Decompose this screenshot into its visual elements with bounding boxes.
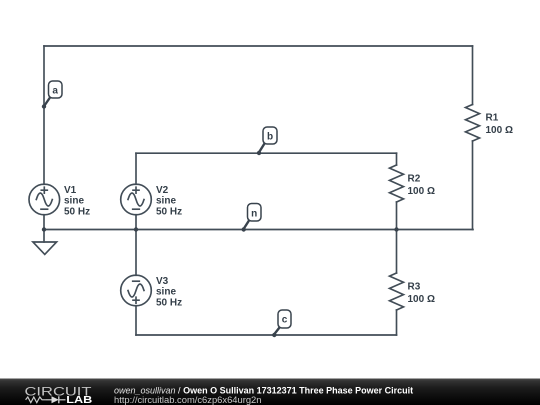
svg-text:V2: V2 [156,185,169,196]
wire node b row [136,152,397,154]
svg-text:a: a [52,86,58,97]
wire R3 bottom stub [396,310,398,335]
resistor R2 [390,165,404,202]
svg-text:V1: V1 [64,185,77,196]
node a [42,81,62,109]
label V1 value [64,185,90,218]
wire left vertical (node a) [43,46,45,184]
footer title text [114,386,413,405]
svg-text:100 Ω: 100 Ω [408,294,435,305]
svg-text:sine: sine [64,196,84,207]
svg-text:R2: R2 [408,174,421,185]
svg-text:sine: sine [156,196,176,207]
wire V2 top stub [135,153,137,184]
ground [33,242,57,254]
resistor R1 [466,105,480,142]
wire V3 bottom stub [135,306,137,335]
svg-text:LAB: LAB [66,395,92,405]
svg-text:50 Hz: 50 Hz [64,207,90,218]
wire R3 top stub [396,230,398,274]
svg-text:V3: V3 [156,276,169,287]
svg-text:R3: R3 [408,282,421,293]
svg-text:b: b [267,132,273,143]
wire ground stem [43,230,45,243]
node n [242,204,262,232]
wire R2 bottom stub [396,202,398,230]
svg-text:http://circuitlab.com/c6zp6x64: http://circuitlab.com/c6zp6x64urg2n [114,394,261,405]
wire R2 top stub [396,153,398,165]
svg-text:100 Ω: 100 Ω [486,125,513,136]
junction dot V1/ground/n [42,227,46,231]
wire R1 bottom stub [472,141,474,230]
wire node c row [136,334,397,336]
junction dot V2/V3/n [134,227,138,231]
voltage source V3 [121,275,152,306]
svg-text:R1: R1 [486,113,499,124]
label V3 value [156,276,182,309]
svg-text:50 Hz: 50 Hz [156,207,182,218]
footer CircuitLab logo [25,385,93,405]
junction dot R2/R3/n [394,227,398,231]
footer bar [0,379,540,405]
wire right vertical top [472,46,474,105]
svg-text:50 Hz: 50 Hz [156,298,182,309]
wire V2 bottom stub [135,215,137,230]
node b [257,127,277,155]
label R1 value [486,113,513,137]
wire V1 bottom stub [43,215,45,230]
label V2 value [156,185,182,218]
label R2 value [408,174,435,198]
svg-text:c: c [282,315,288,326]
node c [272,310,291,337]
voltage source V2 [121,184,152,215]
label R3 value [408,282,435,306]
voltage source V1 [29,184,60,215]
wire top [44,45,473,47]
svg-text:100 Ω: 100 Ω [408,186,435,197]
wire node n row [44,229,473,231]
wire V2-V3 link [135,230,137,276]
svg-text:sine: sine [156,287,176,298]
resistor R3 [390,273,404,310]
svg-text:n: n [251,209,257,220]
